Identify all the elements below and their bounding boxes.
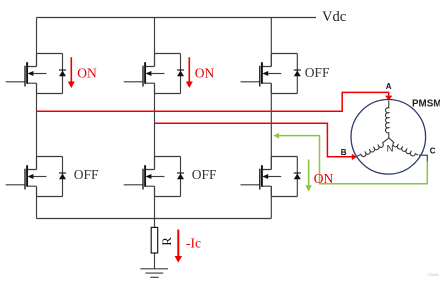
svg-text:B: B bbox=[341, 148, 347, 157]
svg-text:OFF: OFF bbox=[74, 167, 99, 182]
svg-text:ON: ON bbox=[314, 171, 334, 186]
svg-text:PMSM: PMSM bbox=[412, 98, 440, 109]
svg-text:CSDN @Cyans: CSDN @Cyans bbox=[427, 272, 440, 277]
svg-text:N: N bbox=[387, 143, 394, 154]
svg-text:OFF: OFF bbox=[192, 167, 217, 182]
svg-text:C: C bbox=[430, 147, 436, 156]
svg-text:R: R bbox=[159, 237, 174, 246]
svg-text:-Ic: -Ic bbox=[186, 236, 201, 251]
svg-text:A: A bbox=[386, 82, 392, 91]
svg-text:Vdc: Vdc bbox=[322, 9, 346, 25]
svg-text:OFF: OFF bbox=[305, 65, 330, 80]
svg-text:ON: ON bbox=[195, 66, 215, 81]
svg-text:ON: ON bbox=[77, 66, 97, 81]
